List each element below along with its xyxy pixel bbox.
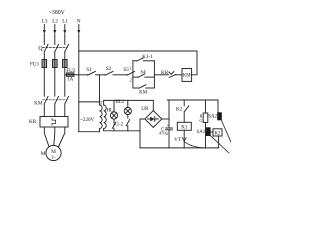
- svg-text:SA1: SA1: [196, 130, 205, 135]
- wire KR to motor L2: [54, 127, 55, 145]
- switch S4 blade: [138, 74, 145, 78]
- svg-text:K1: K1: [181, 126, 188, 131]
- contactor KM main contact L3: [44, 96, 48, 104]
- switch Q pole L1: [65, 44, 69, 51]
- wire 220V loop bottom: [79, 131, 100, 133]
- wire S2 to S3: [113, 74, 127, 76]
- relay coil K2: [211, 129, 222, 137]
- photoresistor RG branch upper wire: [205, 100, 207, 113]
- relay coil K1: [177, 122, 191, 130]
- wire L3 KM to KR: [43, 104, 45, 117]
- svg-text:KR: KR: [161, 70, 169, 76]
- wire K1-1 block to KR contact: [154, 74, 168, 76]
- node L2: [52, 18, 58, 24]
- control rail tap from L1: [65, 74, 67, 76]
- svg-text:SA2: SA2: [208, 115, 217, 120]
- rectifier UR input drop: [152, 100, 154, 110]
- node left bus of K1-1 block: [132, 61, 134, 88]
- svg-text:L3: L3: [42, 18, 48, 24]
- float switch SA1 cable: [211, 136, 229, 153]
- svg-text:HL1: HL1: [107, 109, 116, 114]
- wire K2 coil to bottom rail: [218, 136, 220, 148]
- rectifier UR diode symbol: [148, 117, 159, 122]
- label ~380V supply: [49, 10, 66, 16]
- svg-text:Q: Q: [38, 46, 43, 52]
- contactor KM auxiliary contact blade: [139, 85, 146, 88]
- float switch SA1 body: [206, 127, 211, 136]
- photoresistor RG label: [199, 113, 203, 122]
- svg-text:1: 1: [129, 65, 132, 70]
- svg-text:~380V: ~380V: [49, 10, 66, 16]
- wire control return rail (N to right drop): [79, 50, 197, 52]
- relay contact K1-1 label: [142, 54, 153, 60]
- switch Q linkage (dashed): [43, 47, 68, 49]
- lamp HL2: [124, 107, 131, 114]
- wire secondary bottom to lamp bottom rail: [104, 129, 140, 131]
- transformer T label: [99, 101, 102, 106]
- contactor KM main contact L2: [55, 96, 59, 104]
- svg-text:FU1: FU1: [30, 61, 40, 67]
- wire secondary top to lamp rail: [104, 100, 153, 105]
- float switch SA1 label: [196, 130, 205, 135]
- lamp HL2 branch top wire: [127, 100, 129, 107]
- relay contact K2 branch upper wire: [183, 100, 185, 106]
- wire S1 to S2 (junction to transformer at x=99.5): [96, 74, 106, 76]
- wire L2 Q to FU1: [54, 52, 56, 60]
- capacitor C plates: [166, 128, 173, 130]
- rectifier UR label: [141, 106, 149, 112]
- relay contact K1-1 branch wire: [133, 60, 155, 62]
- contactor KM auxiliary contact branch wire: [133, 87, 155, 89]
- svg-text:VT: VT: [174, 137, 182, 143]
- wire L2 FU1 to KM: [54, 68, 56, 97]
- capacitor C polarity plus: [167, 124, 170, 129]
- switch Q pole L3: [44, 44, 48, 51]
- wire L3 FU1 to KM: [43, 68, 45, 97]
- relay contact K2 blade: [184, 106, 189, 112]
- fuse FU2: [67, 73, 74, 76]
- wire L1 to switch Q: [64, 34, 66, 45]
- capacitor C bus lower: [168, 130, 170, 148]
- wire L3 to switch Q: [43, 34, 45, 45]
- svg-text:+: +: [167, 124, 170, 129]
- wire L3 incoming arrow: [43, 25, 46, 35]
- wire L1 FU1 to KM (junction to control rail): [64, 68, 66, 97]
- photoresistor RG lower wire: [205, 123, 207, 148]
- svg-text:~220V: ~220V: [80, 117, 94, 123]
- capacitor C bus upper: [168, 100, 170, 128]
- wire K2 contact to K1 coil: [183, 112, 185, 123]
- fuse FU1 pole L2: [53, 60, 58, 68]
- wire DC top rail: [167, 99, 218, 101]
- node N: [77, 18, 81, 24]
- node L3: [42, 18, 48, 24]
- wire L1 incoming arrow: [63, 25, 66, 35]
- lamp HL1 label: [107, 109, 116, 114]
- switch S3: [127, 71, 135, 75]
- label ~220V: [80, 117, 94, 123]
- switch S1: [88, 71, 96, 75]
- photoresistor RG body: [203, 113, 208, 123]
- svg-text:KM: KM: [34, 101, 43, 107]
- svg-text:HL2: HL2: [115, 100, 124, 105]
- svg-text:KM: KM: [183, 74, 191, 79]
- switch S4 label: [140, 71, 146, 76]
- float switch SA2 cable: [222, 120, 231, 141]
- float switch SA2 drop wire: [217, 100, 219, 112]
- switch S2 label: [106, 66, 112, 72]
- svg-text:M: M: [41, 151, 46, 157]
- wire N vertical down to 220V loop: [78, 34, 80, 132]
- wire L1 KM to KR: [64, 104, 66, 117]
- wire UR minus output to bottom rail: [140, 119, 145, 148]
- fuse FU2 label: [66, 69, 75, 74]
- lamp HL2 label: [115, 100, 124, 105]
- switch S3 label: [123, 67, 129, 73]
- wire KR to motor L3: [44, 127, 49, 147]
- pin 1 label: [129, 65, 132, 70]
- pin 2 label: [130, 78, 133, 83]
- transistor VT collector wire: [183, 130, 185, 148]
- wire 220V loop top: [79, 101, 100, 103]
- switch Q label: [38, 46, 43, 52]
- wire primary bottom to 220V loop: [99, 129, 101, 132]
- thermal relay KR NC contact: [169, 72, 176, 78]
- svg-text:3~: 3~: [51, 155, 56, 160]
- motor M inner text: [51, 149, 56, 159]
- capacitor C label: [161, 127, 164, 132]
- svg-text:KR: KR: [29, 119, 37, 125]
- capacitor C value 470u: [159, 130, 169, 135]
- wire N incoming arrow: [77, 25, 80, 35]
- svg-text:L2: L2: [52, 18, 58, 24]
- relay contact K1-2 label: [113, 123, 123, 128]
- wire L1 Q to FU1: [64, 52, 66, 60]
- svg-text:L1: L1: [62, 18, 68, 24]
- motor M circle: [46, 145, 61, 160]
- fuse FU2 rating 1A: [67, 77, 74, 82]
- switch S4 branch wire: [133, 76, 155, 78]
- svg-text:K2: K2: [176, 107, 183, 113]
- relay contact K1-2 blade: [112, 119, 116, 131]
- thermal relay KR box: [40, 117, 68, 128]
- svg-text:KM: KM: [139, 91, 148, 96]
- svg-text:S2: S2: [106, 66, 112, 72]
- wire L3 Q to FU1: [43, 52, 45, 60]
- wire KR to motor L1: [59, 127, 65, 147]
- relay contact K2 label: [176, 107, 183, 113]
- float switch SA2 body: [217, 112, 222, 120]
- thermal relay KR label: [29, 119, 37, 125]
- motor M outside label: [41, 151, 46, 157]
- transformer T secondary winding: [104, 105, 107, 129]
- node right bus of K1-1 block: [153, 61, 155, 88]
- svg-text:UR: UR: [141, 106, 149, 112]
- svg-text:FU2: FU2: [66, 69, 75, 74]
- svg-text:1A: 1A: [67, 77, 74, 82]
- thermal relay KR heater element: [52, 119, 56, 126]
- wire KR contact to KM coil: [176, 74, 182, 76]
- contactor coil KM: [182, 69, 192, 82]
- rectifier UR bridge diamond: [145, 111, 162, 128]
- thermal relay KR contact label: [161, 70, 169, 76]
- svg-text:N: N: [77, 18, 81, 24]
- wire L2 to switch Q: [54, 34, 56, 45]
- node L1: [62, 18, 68, 24]
- contactor KM label: [34, 101, 43, 107]
- lamp HL1 branch top wire: [113, 100, 115, 112]
- switch S1 label: [86, 67, 92, 73]
- contactor KM main contact L1: [65, 96, 69, 104]
- svg-text:K1-2: K1-2: [113, 123, 123, 128]
- wire right drop to KM coil: [191, 51, 197, 75]
- svg-text:2: 2: [130, 78, 133, 83]
- switch Q pole L2: [55, 44, 59, 51]
- transistor VT emitter arrow: [182, 138, 186, 141]
- svg-text:S1: S1: [86, 67, 92, 73]
- fuse FU1 pole L3: [42, 60, 47, 68]
- svg-text:470µ: 470µ: [159, 130, 169, 135]
- transformer T primary drop from control rail: [99, 75, 101, 105]
- relay contact K1-3 blade on HL2 branch: [126, 115, 129, 131]
- transformer T primary winding: [100, 105, 103, 129]
- wire L2 KM to KR: [54, 104, 56, 117]
- svg-text:S4: S4: [140, 71, 146, 76]
- fuse FU1 pole L1: [63, 60, 68, 68]
- wire L2 incoming arrow: [53, 25, 56, 35]
- float switch SA2 label: [208, 115, 217, 120]
- contactor KM linkage (dashed): [43, 99, 68, 101]
- relay contact K1-1 blade: [137, 58, 144, 61]
- svg-text:K2: K2: [215, 132, 221, 137]
- wire UR plus output to C bus: [162, 118, 169, 120]
- contactor KM auxiliary label: [139, 91, 148, 96]
- wire FU2 to S1: [74, 74, 88, 76]
- switch S2: [105, 71, 113, 75]
- transistor VT label: [174, 137, 182, 143]
- wire DC bottom rail: [140, 147, 219, 149]
- transistor VT base wire curve: [184, 142, 205, 148]
- lamp HL1: [110, 112, 117, 119]
- svg-text:K1-1: K1-1: [142, 54, 153, 60]
- fuse FU1 label: [30, 61, 40, 67]
